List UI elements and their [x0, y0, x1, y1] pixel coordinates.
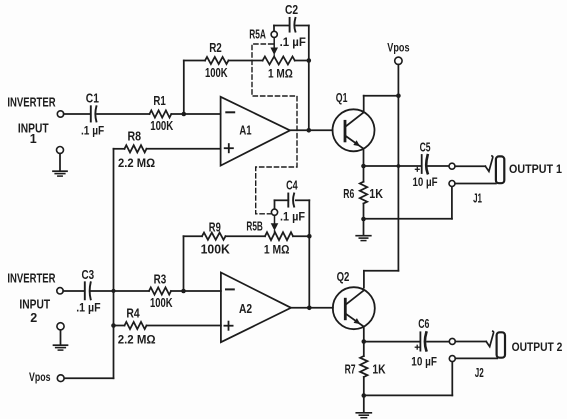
- svg-text:R9: R9: [209, 221, 221, 235]
- svg-text:R7: R7: [345, 362, 356, 376]
- svg-text:2: 2: [30, 311, 37, 325]
- svg-text:C1: C1: [86, 91, 99, 105]
- svg-text:100K: 100K: [201, 242, 230, 256]
- svg-text:C4: C4: [286, 179, 298, 193]
- svg-text:100K: 100K: [205, 66, 228, 80]
- svg-text:Q1: Q1: [336, 91, 348, 105]
- svg-text:R5B: R5B: [246, 220, 263, 234]
- svg-text:C6: C6: [418, 317, 429, 331]
- svg-text:C2: C2: [285, 3, 298, 17]
- svg-text:A2: A2: [239, 301, 252, 316]
- svg-text:Q2: Q2: [337, 270, 350, 284]
- svg-text:10 µF: 10 µF: [413, 175, 438, 189]
- svg-text:.1 µF: .1 µF: [76, 301, 100, 315]
- svg-text:OUTPUT 2: OUTPUT 2: [512, 340, 563, 354]
- svg-text:INVERTER: INVERTER: [7, 272, 55, 286]
- svg-text:R5A: R5A: [249, 28, 266, 42]
- svg-text:R3: R3: [154, 273, 167, 287]
- svg-text:OUTPUT 1: OUTPUT 1: [509, 162, 562, 176]
- svg-text:.1 µF: .1 µF: [280, 210, 305, 224]
- svg-text:100K: 100K: [150, 296, 173, 310]
- svg-text:1K: 1K: [369, 187, 383, 201]
- svg-text:.1 µF: .1 µF: [280, 35, 306, 49]
- svg-text:C5: C5: [420, 140, 431, 154]
- svg-text:2.2 MΩ: 2.2 MΩ: [118, 156, 155, 170]
- svg-text:1 MΩ: 1 MΩ: [268, 67, 293, 81]
- svg-text:1 MΩ: 1 MΩ: [264, 242, 290, 256]
- svg-text:INPUT: INPUT: [19, 298, 50, 312]
- svg-text:1K: 1K: [372, 362, 385, 376]
- svg-text:100K: 100K: [150, 119, 173, 133]
- svg-text:.1 µF: .1 µF: [81, 124, 104, 138]
- svg-text:R8: R8: [128, 129, 142, 143]
- svg-text:2.2 MΩ: 2.2 MΩ: [118, 332, 156, 346]
- svg-text:J1: J1: [473, 191, 482, 205]
- svg-text:A1: A1: [239, 123, 251, 138]
- svg-text:R1: R1: [153, 94, 165, 108]
- svg-text:1: 1: [30, 132, 37, 146]
- svg-text:Vpos: Vpos: [29, 372, 51, 384]
- svg-text:R4: R4: [126, 306, 139, 320]
- svg-text:10 µF: 10 µF: [411, 355, 437, 369]
- svg-text:J2: J2: [475, 366, 484, 380]
- svg-text:C3: C3: [82, 268, 95, 282]
- svg-text:R6: R6: [343, 187, 354, 201]
- svg-text:Vpos: Vpos: [387, 43, 409, 55]
- svg-text:INVERTER: INVERTER: [7, 95, 55, 109]
- svg-text:R2: R2: [209, 41, 222, 55]
